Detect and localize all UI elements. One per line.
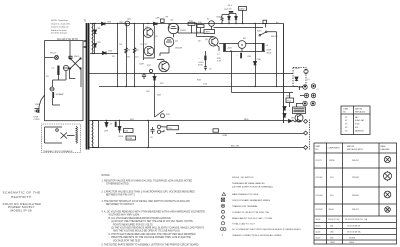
svg-text:R16: R16 (217, 17, 222, 19)
diodes left of plate (283, 107, 286, 111)
svg-text:C9: C9 (150, 137, 153, 139)
svg-text:to parts as they are: to parts as they are (51, 26, 70, 29)
box with text top (239, 7, 247, 11)
svg-text:CR10: CR10 (118, 136, 124, 138)
diode and resistor tail on rail E (288, 120, 289, 122)
svg-text:110-120 V AC 60 Hz: 110-120 V AC 60 Hz (57, 38, 79, 41)
svg-text:2N1412: 2N1412 (352, 160, 359, 162)
resistor R1 zigzag (125, 48, 128, 54)
svg-text:220: 220 (135, 57, 139, 59)
B+ box (263, 20, 267, 23)
svg-text:BETWEEN THE PIN (V.P.T.): BETWEEN THE PIN (V.P.T.) (106, 195, 135, 197)
wire vertical x276 (276, 34, 278, 87)
terminal strip TS-1 label box (167, 126, 179, 130)
svg-text:MAY BE: MAY BE (355, 108, 363, 111)
svg-text:R4: R4 (120, 44, 123, 46)
right column symbols (220, 193, 226, 238)
svg-text:C7: C7 (217, 54, 220, 56)
switch leg wires (70, 41, 82, 87)
notes text left column (102, 175, 206, 246)
svg-text:B. ALL VOLTAGES MEASURED FROM: B. ALL VOLTAGES MEASURED FROM CHASSIS GR… (109, 217, 172, 220)
svg-text:2N256: 2N256 (329, 160, 335, 162)
svg-text:1.5K: 1.5K (203, 84, 208, 86)
transistor Q4 (164, 37, 174, 47)
svg-text:2X: 2X (46, 76, 49, 78)
svg-text:10UF: 10UF (139, 64, 145, 66)
capacitor C1 primary (57, 66, 59, 76)
svg-text:56-65: 56-65 (316, 232, 321, 234)
wire rail G (89, 147, 304, 149)
svg-text:V2: V2 (345, 120, 347, 122)
svg-text:R31: R31 (166, 114, 171, 116)
svg-text:10K: 10K (146, 91, 150, 93)
connector diamond rail G (304, 146, 308, 150)
svg-text:NE-2: NE-2 (295, 68, 300, 70)
svg-text:MAY BE: MAY BE (347, 145, 355, 148)
svg-text:6AN8GTA: 6AN8GTA (355, 129, 364, 132)
svg-text:R28: R28 (157, 95, 162, 97)
transistor Q2 (144, 46, 154, 56)
svg-text:T1: T1 (84, 20, 87, 23)
svg-text:1N 4 DIODE 56: 1N 4 DIODE 56 (347, 226, 360, 228)
wire rail E (heater bus) (89, 120, 288, 122)
wire B+ feed vertical (283, 24, 285, 124)
svg-text:C5: C5 (209, 69, 212, 71)
small fuse box near switch (69, 56, 72, 58)
svg-text:SW-1A, -1B, SWITCH: SW-1A, -1B, SWITCH (232, 176, 254, 179)
svg-text:Q3: Q3 (171, 20, 175, 22)
svg-text:PILOT: PILOT (50, 52, 57, 54)
cap at 144,76 (142, 73, 146, 79)
svg-text:CR1: CR1 (97, 28, 102, 30)
capacitor C9 (151, 127, 155, 134)
svg-text:1N2: 1N2 (330, 237, 333, 239)
svg-text:CORD: CORD (34, 119, 41, 121)
diode CR6 on rail A (154, 22, 158, 25)
cap bar top (229, 11, 233, 13)
svg-text:Q8: Q8 (291, 118, 295, 120)
svg-text:CR9: CR9 (104, 131, 109, 133)
diode CR2 on rail B (103, 51, 107, 54)
secondary winding upper (92, 24, 93, 53)
svg-text:RETURNED TO CONTACT.: RETURNED TO CONTACT. (106, 203, 135, 206)
svg-text:CR4: CR4 (108, 51, 113, 53)
svg-text:V1: V1 (345, 117, 347, 119)
rectifier diodes on x=95 (94, 24, 96, 54)
svg-text:listed in the parts: listed in the parts (51, 29, 67, 32)
svg-text:K1: K1 (207, 19, 210, 21)
svg-text:Q4: Q4 (175, 41, 179, 43)
svg-text:CR8: CR8 (257, 59, 262, 61)
terminal circles TS-1 (157, 125, 160, 128)
svg-text:OTHERWISE NOTED.: OTHERWISE NOTED. (106, 184, 130, 186)
relay circle on rail A (209, 21, 215, 27)
wire + diode CR7 column (154, 74, 156, 118)
wire vertical x255 (255, 24, 257, 87)
svg-text:(1) DO NOT USE THE METER TO SE: (1) DO NOT USE THE METER TO SET THE LINE… (111, 220, 193, 223)
svg-text:450V: 450V (198, 65, 203, 67)
svg-text:REPLACED WITH: REPLACED WITH (347, 148, 363, 151)
svg-text:CB1: CB1 (127, 19, 132, 21)
svg-text:CR04: CR04 (349, 242, 354, 244)
wire rail D (common) (99, 86, 298, 88)
svg-text:2N2148: 2N2148 (352, 177, 359, 179)
big replacement table (314, 143, 397, 244)
notes right column list (232, 176, 301, 237)
svg-text:SCHEMATIC OF THE: SCHEMATIC OF THE (3, 191, 41, 195)
pilot lamp PL1 (55, 56, 59, 60)
svg-text:THERMAL CIRCUIT BREAKER: THERMAL CIRCUIT BREAKER (43, 150, 73, 153)
svg-text:M: M (241, 43, 244, 47)
svg-text:HEATHKIT®: HEATHKIT® (11, 195, 32, 199)
svg-text:417-118: 417-118 (316, 209, 323, 211)
svg-text:2N7000: 2N7000 (352, 195, 359, 197)
svg-text:R33: R33 (197, 80, 202, 82)
svg-text:417-23: 417-23 (316, 160, 322, 162)
svg-text:FUSE: FUSE (127, 138, 133, 140)
svg-text:56-56: 56-56 (316, 219, 321, 221)
wire vertical bus 2 (126, 24, 128, 87)
svg-text:CR6: CR6 (156, 18, 161, 20)
wire vertical bus 1 (117, 24, 119, 87)
breaker circle on rail A (125, 21, 130, 26)
terminals row2 (304, 93, 308, 97)
svg-text:CONNECTS ON BOTTOM SIDE, TML: CONNECTS ON BOTTOM SIDE, TML (232, 212, 270, 214)
svg-text:VOLTAGE FOR THE TEST.: VOLTAGE FOR THE TEST. (113, 239, 141, 242)
fuse F1 (63, 65, 68, 70)
svg-text:R30: R30 (248, 56, 253, 58)
svg-text:TOTAL LOAD TO: 50 V: TOTAL LOAD TO: 50 V (232, 223, 255, 226)
wire rail B (90, 53, 118, 55)
svg-text:z: z (222, 234, 224, 237)
svg-text:6L6: 6L6 (355, 127, 358, 129)
svg-text:(2) THE VOLTAGES READINGS HERE: (2) THE VOLTAGES READINGS HERE WILL SLIG… (111, 227, 204, 230)
svg-text:X10: X10 (330, 195, 333, 197)
transformer T1 core (86, 23, 88, 150)
svg-text:+50V: +50V (227, 48, 232, 50)
svg-text:NO.: NO. (343, 112, 347, 114)
svg-text:56-23: 56-23 (316, 226, 321, 228)
svg-text:R3: R3 (112, 56, 115, 58)
svg-text:450V: 450V (267, 53, 272, 55)
svg-text:R12: R12 (147, 65, 152, 67)
svg-text:417-067: 417-067 (316, 177, 323, 179)
svg-text:MAIN CHASSIS TOP SIDE: MAIN CHASSIS TOP SIDE (232, 193, 259, 196)
svg-text:2N1413: 2N1413 (352, 209, 359, 211)
svg-text:CR2: CR2 (97, 42, 102, 44)
potentiometer R31 wiper (155, 111, 164, 118)
svg-text:56: 56 (110, 124, 113, 126)
diode CR9 under rail E (106, 121, 108, 128)
svg-text:0A2: 0A2 (355, 116, 358, 119)
wire rail F (176, 133, 304, 135)
svg-text:NO.: NO. (316, 149, 320, 151)
svg-text:NOTE: Transistors: NOTE: Transistors (51, 19, 68, 22)
capacitor C8 bar (115, 122, 117, 128)
meter M1 (238, 41, 246, 49)
wire vertical x148 (148, 121, 150, 148)
svg-text:C3: C3 (266, 45, 269, 47)
svg-text:+: + (237, 55, 239, 57)
svg-text:-13 V: -13 V (227, 8, 233, 10)
svg-text:M1: M1 (243, 38, 247, 40)
interior wires (53, 71, 67, 105)
svg-text:CHASSIS CONNECTION & GROUND AL: CHASSIS CONNECTION & GROUND ALL WIRED (232, 234, 282, 237)
switch SW1 (70, 58, 82, 69)
svg-text:MODEL IP-28: MODEL IP-28 (11, 208, 32, 212)
svg-text:LIMIT: LIMIT (205, 32, 211, 34)
svg-text:SW-1: SW-1 (74, 56, 80, 58)
label box on rail F (213, 129, 219, 132)
svg-text:(-): (-) (317, 89, 319, 91)
svg-text:REPLACED: REPLACED (355, 111, 366, 114)
svg-text:OPEN THE REM BITS OF THE VOLTA: OPEN THE REM BITS OF THE VOLTAGE PASSED … (111, 236, 191, 239)
svg-text:list of the manual.: list of the manual. (51, 32, 68, 35)
wire rail C (88, 73, 293, 75)
svg-text:R27: R27 (160, 83, 165, 85)
svg-text:SW2: SW2 (257, 31, 262, 33)
small tube table (341, 106, 370, 135)
component value labels speckle (97, 9, 319, 139)
filter cap C2 (223, 43, 226, 51)
primary box (45, 41, 84, 121)
svg-text:Q2: Q2 (155, 36, 159, 38)
wire vertical bus 3 (134, 24, 136, 87)
svg-text:C. PHOTO FACT MEASURED AND GR: C. PHOTO FACT MEASURED AND GROUND. THE C… (109, 233, 196, 236)
svg-text:1N 2 DIODE 1A: 1N 2 DIODE 1A (347, 231, 361, 234)
svg-text:BASE: BASE (381, 145, 387, 148)
svg-text:TERMINALS AT REAR LABELED: TERMINALS AT REAR LABELED (232, 182, 265, 185)
diode CR8 (253, 62, 256, 65)
title block (3, 191, 42, 213)
junction dots (94, 23, 277, 148)
dashed box with diode (293, 68, 306, 87)
hatched plate (293, 107, 306, 114)
svg-text:1N34: 1N34 (330, 242, 335, 244)
transistor Q1 (143, 28, 153, 38)
svg-text:C5: C5 (140, 44, 143, 46)
relay switch inside (61, 133, 68, 139)
wire interstage x154 (144, 26, 155, 58)
wire L-bend x231 (232, 52, 294, 93)
transistor Q5 (209, 37, 218, 46)
svg-text:4. A. DC VOLTAGE READINGS W: 4. A. DC VOLTAGE READINGS WITH VTVM MEAS… (102, 211, 206, 214)
svg-text:Q5: Q5 (198, 41, 202, 43)
svg-text:2N-40: 2N-40 (329, 209, 334, 211)
transistor Q3 (168, 23, 179, 34)
coil inside dashed box (76, 127, 77, 144)
svg-text:CR-56 TO 60: CR-56 TO 60 (328, 219, 339, 221)
svg-text:SW-1B: SW-1B (271, 36, 278, 38)
connector stubs (290, 87, 300, 108)
svg-text:X10: X10 (330, 177, 333, 179)
svg-text:(LETTER SUFFIX FOR A OR TERMIN: (LETTER SUFFIX FOR A OR TERMINAL) (232, 185, 273, 188)
resistor R40 box (124, 129, 134, 133)
small box above rail (161, 19, 165, 22)
svg-text:BLK-YEL: BLK-YEL (231, 146, 240, 148)
svg-text:+: + (199, 58, 201, 60)
svg-text:417-090: 417-090 (316, 195, 323, 197)
svg-text:120V: 120V (35, 104, 41, 106)
wire base bus x143 (143, 24, 145, 61)
svg-text:470: 470 (127, 57, 131, 59)
transistor circle bottom right (295, 114, 303, 122)
svg-text:(+): (+) (307, 79, 310, 81)
dashed thermal box (42, 124, 81, 153)
transistor Q6 mid (159, 61, 169, 71)
filter cap C3 (262, 43, 265, 51)
svg-text:GRN: GRN (223, 135, 228, 137)
svg-text:1. RESISTOR VALUES ARE IN OH: 1. RESISTOR VALUES ARE IN OHMS (K=1,000)… (102, 180, 193, 183)
svg-text:Q2: Q2 (145, 44, 149, 46)
svg-text:6 BQ: 6 BQ (355, 124, 360, 126)
svg-text:READS ABOUT 50% RL LOAD - 2 TU: READS ABOUT 50% RL LOAD - 2 TURN (232, 217, 273, 220)
cap bar lower (52, 92, 54, 98)
cap below meter (240, 53, 242, 59)
svg-text:1N4: 1N4 (330, 232, 333, 234)
svg-text:2N1039: 2N1039 (175, 48, 183, 50)
svg-text:PART: PART (316, 145, 322, 148)
svg-text:RED: RED (244, 119, 249, 121)
diode CR1 on rail A (102, 22, 106, 25)
dashed connector line (309, 120, 311, 150)
svg-text:R1: R1 (128, 50, 131, 52)
plug and cord (39, 95, 45, 107)
svg-text:V4: V4 (345, 127, 347, 129)
svg-text:4.7K: 4.7K (217, 61, 222, 63)
svg-text:V5: V5 (345, 130, 347, 132)
base diagram symbols (384, 156, 390, 162)
svg-text:DIODE: DIODE (349, 237, 356, 239)
connector diamond rail F (304, 131, 308, 135)
svg-text:CR12: CR12 (239, 8, 245, 10)
svg-text:3. THE SWITCH SHOWN AT 1: 3. THE SWITCH SHOWN AT 1/3 OF DETAIL. RE… (102, 200, 191, 203)
wire rail A (+DC bus) (90, 23, 284, 25)
switch SW-1B (259, 34, 261, 36)
wire node B+ (214, 24, 266, 28)
resistor box on rail A (188, 22, 195, 25)
svg-text:CIRCUIT BOARD NUMBERED WIRES: CIRCUIT BOARD NUMBERED WIRES (232, 199, 271, 202)
svg-text:3/4 AMP: 3/4 AMP (56, 93, 65, 96)
svg-text:40UF: 40UF (267, 50, 273, 52)
current limit box (204, 30, 215, 34)
resistor upper (221, 15, 223, 24)
svg-text:CR5: CR5 (119, 22, 124, 24)
svg-text:NOTES:: NOTES: (102, 175, 111, 177)
svg-text:R9: R9 (166, 17, 169, 19)
terminals row3 (296, 103, 303, 105)
wire x=98.5 (98, 121, 100, 148)
svg-text:2N155: 2N155 (180, 30, 187, 32)
svg-text:DIAGRAM: DIAGRAM (381, 148, 390, 151)
svg-text:VOLTAGES MAY VARY ±20%.: VOLTAGES MAY VARY ±20%. (109, 214, 141, 217)
arrows to core (83, 40, 86, 42)
svg-text:AND THE VOLTAGE WOULD BE OPEN: AND THE VOLTAGE WOULD BE OPEN AT ITS LIN… (113, 230, 181, 233)
svg-text:GRD: GRD (286, 96, 291, 98)
diode pair top (228, 15, 231, 24)
svg-text:C1: C1 (52, 68, 56, 70)
svg-text:TUBE: TUBE (343, 109, 349, 111)
svg-text:DC VOLTAGE AT THE POINTS SHOWN: DC VOLTAGE AT THE POINTS SHOWN IN BLACK … (232, 228, 301, 231)
note text block top-left (51, 19, 70, 34)
svg-text:TRANSISTOR TERMINAL: TRANSISTOR TERMINAL (232, 205, 258, 208)
svg-text:1N1: 1N1 (330, 226, 333, 228)
svg-text:R2: R2 (136, 50, 139, 52)
resistor R2 zigzag (133, 48, 136, 54)
svg-text:shown in circuit refer: shown in circuit refer (51, 22, 70, 25)
svg-text:5. THE NOTED PARTS REFER TO: 5. THE NOTED PARTS REFER TO ASSEMBLY LET… (102, 243, 199, 246)
terminals row1 (298, 86, 303, 88)
fuse label box (126, 136, 136, 140)
VR box (286, 98, 294, 103)
svg-text:2. CAPACITOR VALUES LESS THA: 2. CAPACITOR VALUES LESS THAN 1 IN MICRO… (102, 191, 196, 194)
thermal breaker (50, 87, 54, 91)
svg-text:56-26 FOR 56-56 R.L. OA: 56-26 FOR 56-56 R.L. OA (345, 218, 368, 221)
svg-text:POINTS MEASURED FOR DC VOLTS.: POINTS MEASURED FOR DC VOLTS. (113, 223, 154, 226)
svg-text:Q5: Q5 (205, 39, 209, 41)
secondary winding lower (92, 121, 93, 148)
filter cap C4 under Q5 emitter (204, 56, 206, 61)
svg-text:+13 V: +13 V (227, 5, 233, 7)
diode CR10 (119, 121, 121, 134)
svg-text:6CA4, 0A2: 6CA4, 0A2 (355, 119, 364, 122)
svg-text:54-55: 54-55 (316, 237, 321, 239)
svg-text:V3: V3 (345, 124, 347, 126)
svg-text:COMPONENT: COMPONENT (328, 148, 341, 150)
